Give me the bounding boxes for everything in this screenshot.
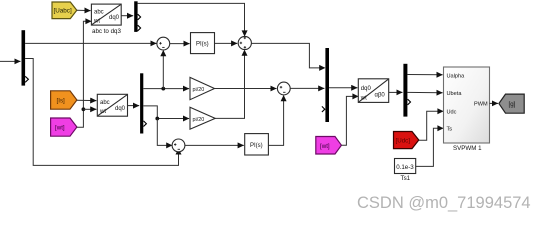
gain G1 pi/20: [190, 77, 215, 99]
svg-text:[g]: [g]: [509, 101, 516, 108]
From tag wt2: [316, 137, 342, 155]
wire wt1 riser to U1 wt and U2 wt: [77, 21, 91, 127]
wire D3 out2 to SVPWM Ubeta: [407, 91, 442, 93]
svg-text:dq0: dq0: [109, 15, 120, 21]
svg-text:abc: abc: [94, 9, 104, 15]
From tag wt1: [51, 118, 77, 136]
From tag Udc: [394, 132, 419, 149]
port chevron D3: [408, 99, 411, 105]
svg-text:Ts: Ts: [447, 126, 453, 132]
wire Is to U2 abc: [77, 99, 97, 101]
wire M2 to U3 dq0: [329, 87, 357, 89]
svg-text:Ualpha: Ualpha: [447, 74, 466, 80]
port chevron D1 b: [138, 25, 141, 31]
abc to dq0 block U2: [97, 94, 127, 116]
svg-text:dq0: dq0: [115, 106, 126, 112]
demux D2: [140, 73, 143, 133]
PI controller PI1: [191, 33, 215, 54]
svg-text:Ubeta: Ubeta: [447, 91, 463, 97]
dq0 to alphabeta0 block U3: [358, 79, 388, 103]
wire M1 top output to sum S1: [25, 42, 156, 44]
sum S3: [172, 139, 185, 152]
wire S1 to PI1: [170, 43, 190, 45]
From tag Uabc: [52, 2, 77, 19]
SVPWM subsystem: [444, 67, 490, 143]
abc to dq0 block U1: [91, 4, 121, 25]
wire S2 to mux M2 input1: [251, 43, 324, 68]
wire U2 out to demux D2: [128, 105, 140, 107]
svg-text:dq0: dq0: [361, 86, 372, 92]
junction q-current: [155, 117, 159, 121]
svg-text:Udc: Udc: [447, 109, 457, 115]
wire D2 out1 to gain G1: [143, 88, 189, 90]
wire junction down to sum S3 left: [157, 119, 171, 146]
svg-text:[wt]: [wt]: [55, 125, 65, 132]
port chevron D2: [144, 121, 147, 127]
svg-text:[Is]: [Is]: [57, 97, 66, 104]
wire constant to SVPWM Ts: [416, 128, 443, 166]
wire U3 to demux D3: [389, 91, 403, 93]
wire D1 top output to sum S2 top: [138, 3, 245, 35]
junction on d-current line: [161, 87, 165, 91]
svg-text:wt: wt: [99, 109, 106, 115]
wire Uabc to U1 abc: [77, 9, 91, 11]
wire S3 to PI2: [185, 144, 244, 146]
From tag Is: [51, 91, 77, 109]
mux M1: [22, 30, 26, 85]
wire Udc to SVPWM Udc: [419, 111, 443, 140]
junction wt to U2: [82, 107, 86, 111]
svg-text:[Uabc]: [Uabc]: [54, 8, 72, 15]
wire D2 out2 jog to gain G2: [143, 106, 157, 119]
svg-text:SVPWM 1: SVPWM 1: [453, 145, 482, 152]
wire SVPWM to Goto g: [490, 102, 499, 104]
wire PI1 to S2: [215, 42, 238, 44]
svg-text:wt: wt: [360, 95, 367, 101]
port chevron on M1: [25, 76, 28, 82]
svg-text:wt: wt: [93, 19, 100, 25]
PI controller PI2: [245, 134, 269, 155]
svg-text:abc: abc: [100, 100, 110, 106]
wire input to mux M1 from left edge: [0, 60, 21, 62]
wire PI2 up to S4 bottom: [268, 96, 283, 145]
gain G2 pi/20: [190, 107, 215, 129]
svg-text:PI(s): PI(s): [250, 143, 263, 149]
svg-text:abc to dq3: abc to dq3: [92, 28, 121, 35]
svg-text:αβ0: αβ0: [375, 93, 386, 99]
wire wt2 to U3 wt: [341, 96, 357, 145]
Goto tag g: [499, 94, 524, 113]
sum S2: [238, 36, 251, 49]
demux D1: [134, 1, 137, 32]
wire M1 mid output feedback to sum S3 bottom: [25, 59, 178, 166]
wire junction up to S1 bottom: [162, 51, 164, 89]
sum S4: [277, 82, 290, 95]
svg-text:0.1e-3: 0.1e-3: [396, 164, 414, 171]
wire S4 to mux M2 input2: [290, 87, 324, 89]
wire G1 to sum S4: [215, 88, 277, 90]
svg-text:pi/20: pi/20: [193, 87, 205, 93]
svg-text:[Udc]: [Udc]: [396, 137, 411, 144]
port chevron D1 a: [138, 14, 141, 20]
port chevron M2 input3: [322, 106, 325, 112]
svg-text:pi/20: pi/20: [193, 117, 205, 123]
svg-text:PI(s): PI(s): [196, 42, 209, 48]
wire U1 out to demux D1: [121, 15, 133, 17]
svg-text:CSDN @m0_71994574: CSDN @m0_71994574: [357, 194, 531, 212]
demux D3: [403, 64, 407, 117]
mux M2: [325, 48, 329, 122]
svg-text:[wt]: [wt]: [320, 143, 330, 150]
svg-text:Ts1: Ts1: [401, 175, 411, 182]
constant 0.1e-3: [395, 159, 416, 174]
wire G2 up to S2 bottom: [215, 51, 244, 119]
sum S1: [157, 37, 170, 50]
wire D3 out1 to SVPWM Ualpha: [407, 74, 442, 76]
svg-text:PWM: PWM: [474, 101, 488, 107]
